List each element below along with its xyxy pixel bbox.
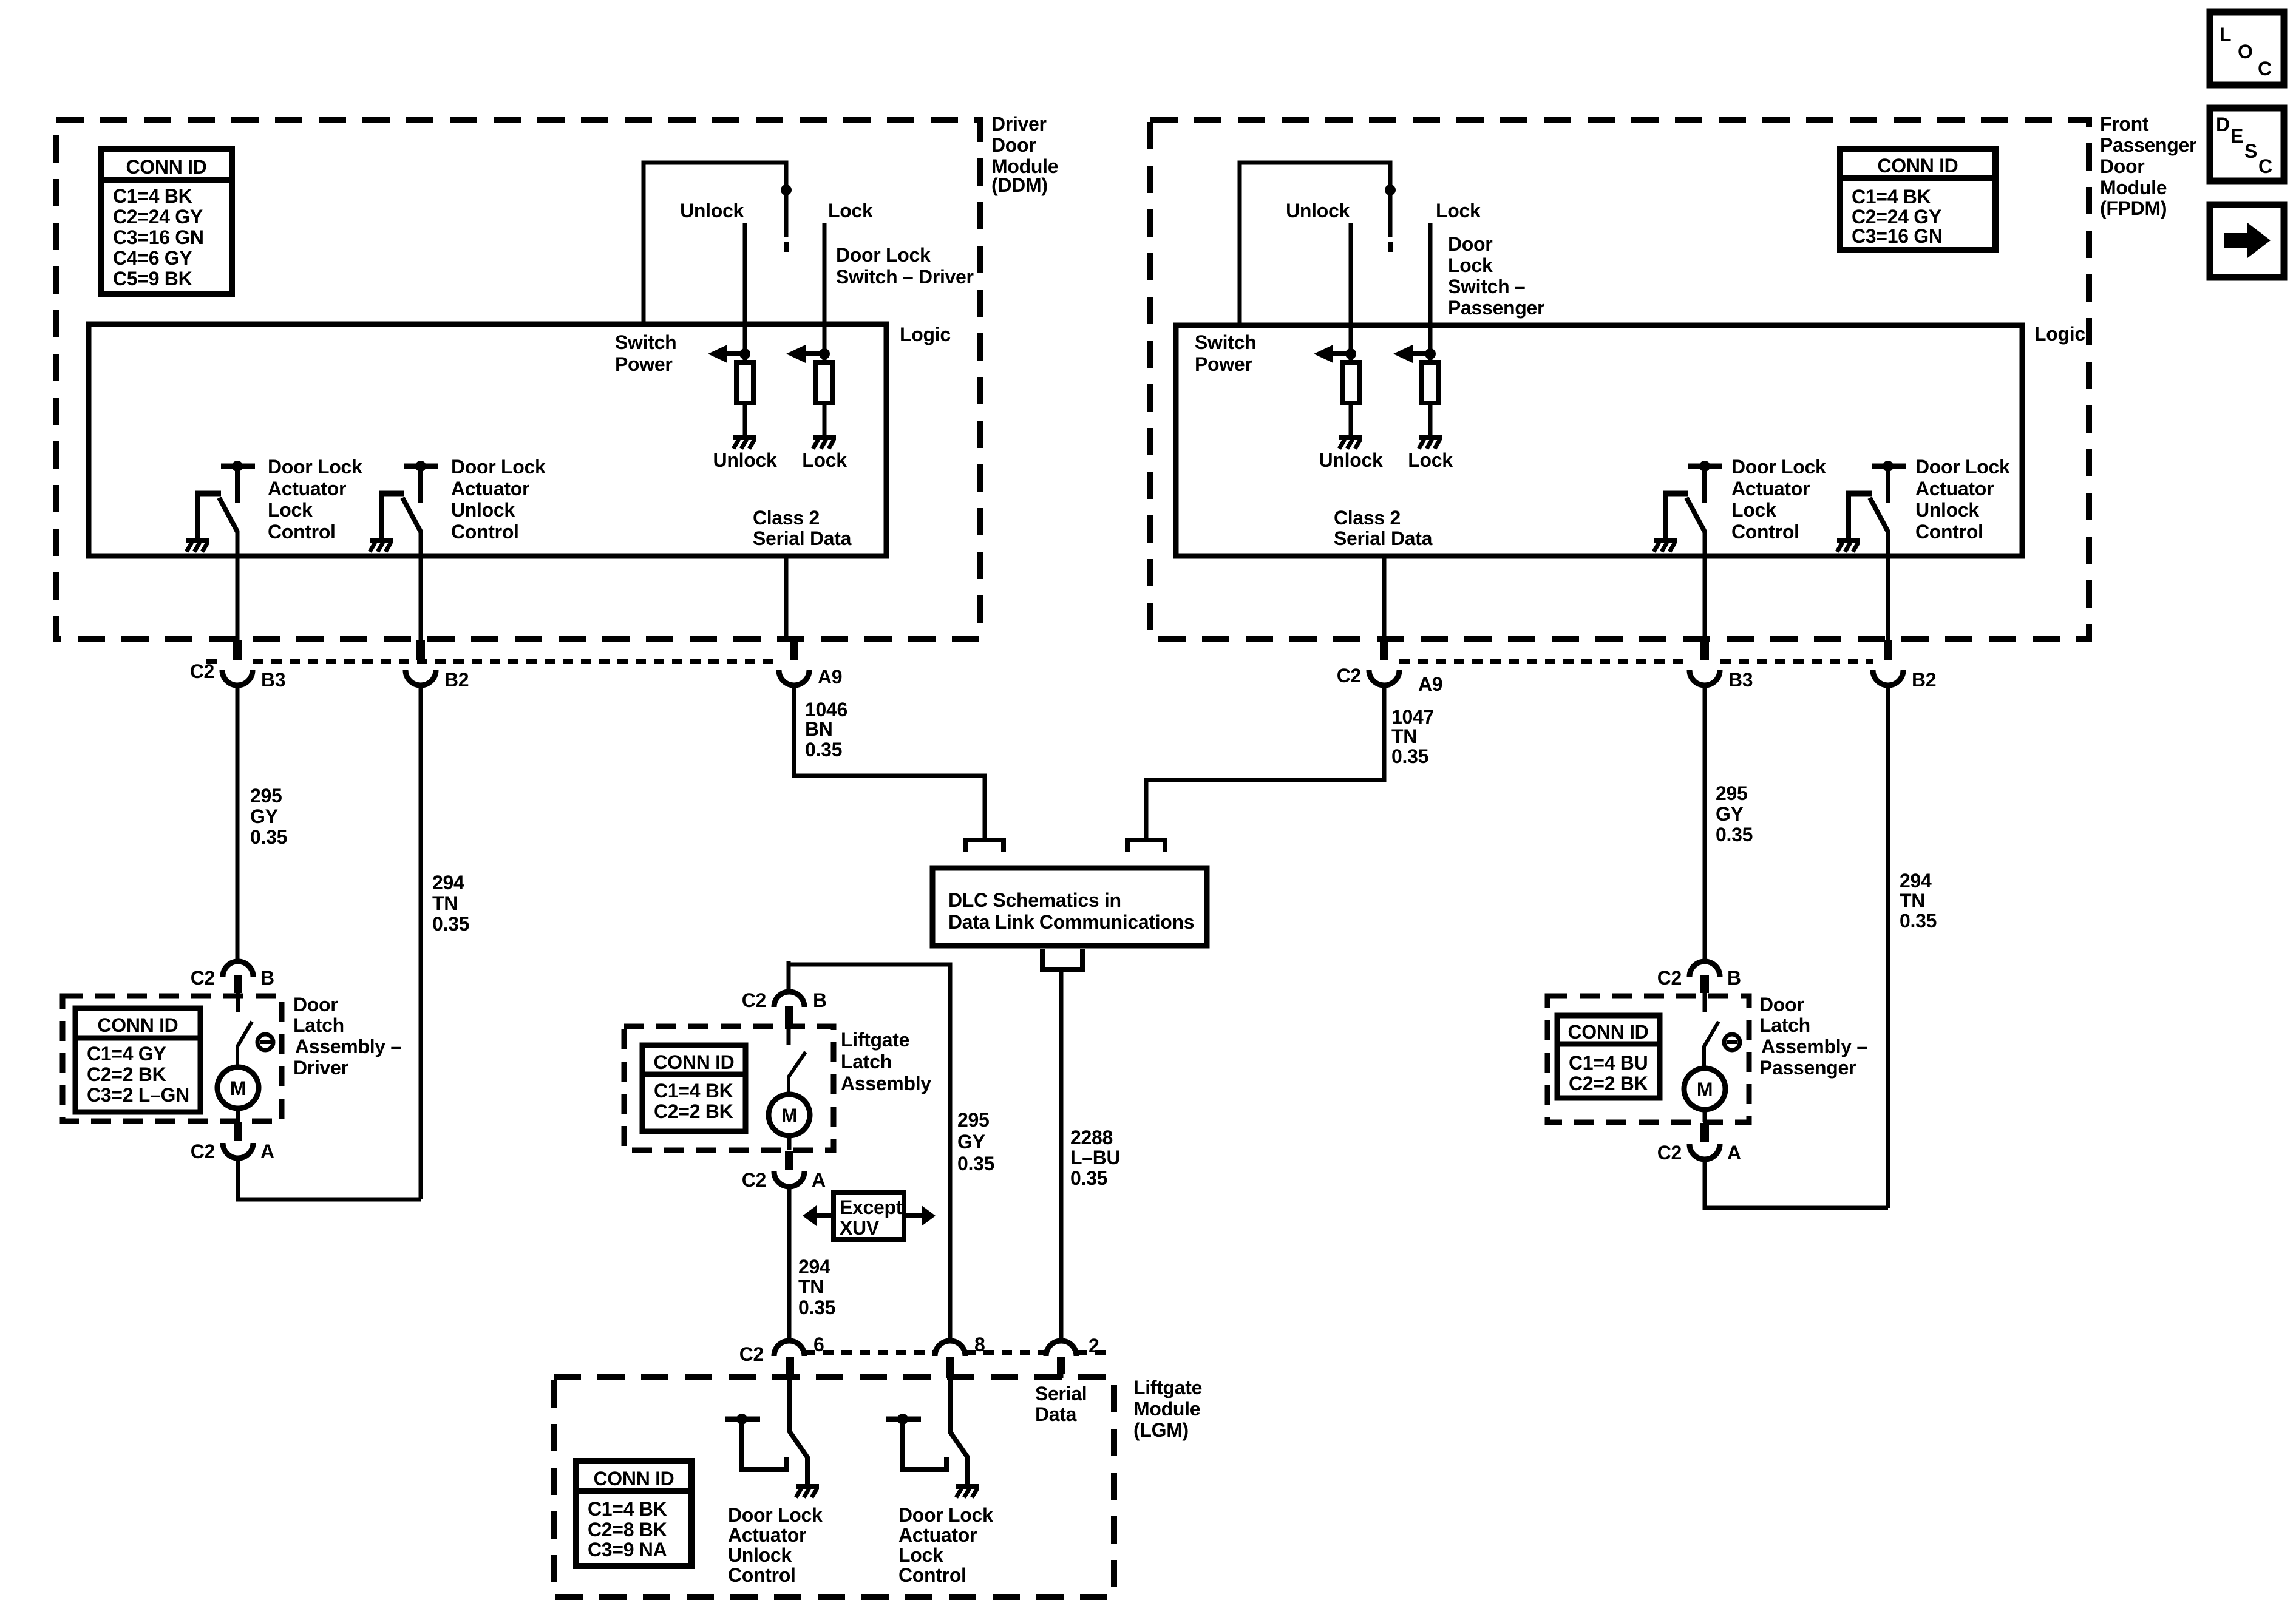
svg-text:Door: Door [1448,233,1492,255]
wire switch power feed DDM [644,163,786,324]
actuator lock control contact LGM [886,1414,946,1470]
svg-text:Serial: Serial [1035,1383,1087,1405]
svg-text:Actuator: Actuator [268,478,346,500]
wire 295 GY B3 to driver latch [236,685,240,963]
svg-text:O: O [2238,41,2253,63]
label Class 2 Serial Data FPDM [1334,507,1433,549]
svg-text:C2=24 GY: C2=24 GY [1852,206,1941,228]
svg-text:C1=4 GY: C1=4 GY [87,1043,166,1065]
svg-text:M: M [230,1077,246,1099]
connector C2 A passenger latch [1690,1110,1720,1159]
wire passenger latch A loop to B2 [1705,1159,1888,1208]
svg-text:Switch –: Switch – [1448,276,1525,297]
svg-text:CONN ID: CONN ID [653,1051,734,1073]
svg-text:Actuator: Actuator [1915,478,1994,500]
svg-text:C2: C2 [1337,665,1361,686]
arrow to switch power from unlock node DDM [708,345,750,363]
label C2 (driver latch A) [191,1141,215,1162]
svg-text:8: 8 [974,1334,985,1355]
svg-text:Lock: Lock [828,200,873,222]
arrow to switch power from lock node DDM [786,345,830,363]
wire class 2 serial data down FPDM [1382,556,1387,641]
label Serial Data LGM [1035,1383,1087,1425]
ground actuator unlock LGM [796,1486,819,1497]
connector ID table passenger latch [1557,1015,1660,1098]
svg-text:0.35: 0.35 [432,913,469,935]
svg-text:GY: GY [250,805,278,827]
connector C2 B liftgate latch [774,964,804,1025]
svg-text:0.35: 0.35 [1070,1167,1107,1189]
switch lever contact dash DDM [784,242,789,252]
svg-text:A9: A9 [818,666,842,688]
svg-text:Lock: Lock [898,1544,943,1566]
svg-text:GY: GY [957,1131,985,1153]
svg-text:CONN ID: CONN ID [1567,1021,1648,1043]
motor M liftgate latch [769,1094,810,1136]
label wire 294 TN 0.35 passenger [1900,870,1937,932]
actuator unlock control switch DDM [379,461,438,540]
label Switch Power DDM [615,331,676,375]
svg-text:Assembly –: Assembly – [1761,1036,1867,1057]
svg-text:Control: Control [1731,521,1799,543]
label Door Lock Actuator Unlock Control DDM [451,456,546,543]
svg-text:Passenger: Passenger [1759,1057,1856,1079]
label Door Lock Actuator Lock Control LGM [898,1504,993,1586]
connector C2 A liftgate latch [774,1136,804,1187]
svg-text:(FPDM): (FPDM) [2100,197,2167,219]
wire 294 TN B2 down driver side [419,685,423,1199]
svg-text:Passenger: Passenger [1448,297,1544,319]
connector pin B3 DDM (C2) [222,640,253,685]
svg-text:Control: Control [268,521,336,543]
svg-text:Unlock: Unlock [680,200,744,222]
svg-text:S: S [2244,140,2257,162]
resistor unlock pull-down FPDM [1342,362,1359,403]
svg-text:C: C [2258,155,2272,177]
svg-text:C1=4 BK: C1=4 BK [1852,186,1931,208]
liftgate latch assembly dashed box [624,1026,834,1150]
connector pin B3 FPDM [1690,640,1720,685]
svg-text:Unlock: Unlock [1319,449,1383,471]
svg-text:Actuator: Actuator [451,478,529,500]
actuator lock control switch DDM [195,461,255,540]
svg-text:C1=4 BU: C1=4 BU [1569,1052,1648,1074]
svg-text:CONN ID: CONN ID [126,156,206,178]
svg-text:2: 2 [1089,1335,1099,1357]
svg-text:Power: Power [615,353,673,375]
wire 1046 BN serial data to DLC [794,685,985,840]
label A (driver latch) [260,1141,274,1162]
svg-text:E: E [2230,125,2243,147]
switch lever driver latch [237,993,252,1067]
svg-text:C2: C2 [739,1343,764,1365]
label wire 295 GY 0.35 driver [250,785,287,848]
label C2 (passenger latch B) [1657,967,1682,989]
svg-text:C1=4 BK: C1=4 BK [588,1498,667,1520]
svg-text:B: B [813,989,827,1011]
wire switch power feed FPDM [1240,163,1390,325]
label 8 [974,1334,985,1355]
label Front Passenger Door Module (FPDM) [2100,113,2196,219]
label Driver Door Module (DDM) [991,113,1058,196]
svg-text:Lock: Lock [802,449,847,471]
svg-text:1046: 1046 [805,699,847,720]
svg-text:Lock: Lock [268,499,313,521]
svg-text:Logic: Logic [900,324,951,345]
connector line dotted C2 DDM [206,659,778,664]
connector pin 8 LGM [935,1341,965,1378]
label B (passenger latch) [1727,967,1741,989]
actuator lock control switch FPDM [1663,461,1722,540]
svg-text:TN: TN [432,892,458,914]
label C2 (LGM pin 6) [739,1343,764,1365]
wire lock switch input FPDM [1428,223,1433,362]
wire lock switch input DDM [823,223,827,362]
svg-text:Latch: Latch [293,1014,344,1036]
label C2 (liftgate latch A) [742,1169,766,1191]
svg-text:Lock: Lock [1731,499,1776,521]
svg-text:C2: C2 [191,967,215,989]
wire actuator lock control output DDM [236,531,240,641]
svg-text:CONN ID: CONN ID [593,1468,674,1490]
svg-text:B: B [260,967,274,989]
svg-text:C1=4 BK: C1=4 BK [113,185,192,207]
svg-text:B: B [1727,967,1741,989]
svg-text:Door Lock: Door Lock [1731,456,1826,478]
svg-text:C2=2 BK: C2=2 BK [1569,1073,1648,1094]
wire resistor to ground unlock FPDM [1349,403,1353,436]
svg-text:294: 294 [798,1256,830,1278]
svg-text:XUV: XUV [840,1217,880,1239]
svg-text:Actuator: Actuator [1731,478,1810,500]
label wire 294 TN 0.35 liftgate [798,1256,835,1318]
svg-text:(DDM): (DDM) [991,174,1048,196]
wire 294 TN B2 down passenger side [1886,685,1890,1208]
connector ID table driver latch [75,1008,200,1112]
svg-text:Switch – Driver: Switch – Driver [836,266,974,288]
svg-text:C: C [2258,58,2272,80]
wire resistor to ground lock DDM [823,403,827,436]
svg-text:M: M [1697,1079,1713,1100]
svg-text:C2=2 BK: C2=2 BK [87,1063,166,1085]
label wire 1046 BN 0.35 [805,699,847,761]
label C2 DDM [190,660,214,682]
label C2 (passenger latch A) [1657,1142,1682,1164]
arrow to switch power from unlock node FPDM [1314,345,1356,363]
svg-text:C5=9 BK: C5=9 BK [113,268,192,290]
svg-text:Door Lock: Door Lock [1915,456,2010,478]
svg-text:TN: TN [1900,890,1925,912]
label Door Lock Actuator Unlock Control LGM [728,1504,823,1586]
connector line dotted liftgate row [805,1350,1111,1355]
svg-text:A: A [260,1141,274,1162]
passenger latch: connector C2 B [1690,961,1720,993]
svg-text:0.35: 0.35 [798,1297,835,1318]
svg-text:0.35: 0.35 [957,1153,994,1175]
label Door Latch Assembly - Driver [293,994,401,1079]
label Door Lock Actuator Lock Control DDM [268,456,362,543]
module box LGM (Liftgate Module) dashed outline [554,1377,1114,1597]
label A9 [818,666,842,688]
svg-text:Unlock: Unlock [1286,200,1350,222]
svg-text:BN: BN [805,718,833,740]
svg-text:Unlock: Unlock [451,499,515,521]
label Liftgate Latch Assembly [841,1029,931,1094]
connector pin A9 FPDM (C2) [1369,640,1399,685]
label B3 [261,669,285,691]
label wire 1047 TN 0.35 [1391,706,1434,767]
driver latch: connector C2 B [223,961,253,993]
label Logic DDM [900,324,951,345]
wire 2288 serial data DLC to LGM [1059,969,1064,1342]
svg-text:Assembly –: Assembly – [295,1036,401,1057]
wire resistor to ground unlock DDM [743,403,747,436]
driver latch assembly dashed box [63,996,282,1121]
ground unlock resistor FPDM [1339,438,1362,449]
svg-text:Serial Data: Serial Data [753,527,852,549]
label Door Lock Switch - Passenger [1448,233,1544,319]
svg-text:L: L [2220,24,2231,46]
svg-text:294: 294 [1900,870,1932,892]
svg-text:Except: Except [840,1196,903,1218]
connector ID table FPDM [1840,149,1995,250]
wire serial data stub into LGM [1059,1374,1064,1378]
label Lock (below ground) DDM [802,449,847,471]
connector pin 2 LGM [1046,1341,1076,1374]
label wire 295 GY 0.35 liftgate [957,1109,994,1175]
label wire 294 TN 0.35 driver [432,872,469,935]
svg-text:L–BU: L–BU [1070,1147,1120,1168]
svg-text:C1=4 BK: C1=4 BK [654,1080,733,1102]
label Door Lock Actuator Lock Control FPDM [1731,456,1826,543]
motor M passenger latch [1684,1068,1725,1110]
svg-text:294: 294 [432,872,464,893]
svg-text:Liftgate: Liftgate [1133,1377,1202,1398]
switch lever contact dash FPDM [1388,242,1393,252]
switch lever passenger latch [1704,993,1719,1067]
label 2 [1089,1335,1099,1357]
svg-text:1047: 1047 [1391,706,1434,728]
ground actuator unlock control FPDM [1837,541,1860,552]
wire actuator lock control output FPDM [1703,531,1707,641]
wire 1047 TN serial data to DLC [1146,685,1384,840]
label Liftgate Module (LGM) [1133,1377,1202,1441]
wire driver latch A loop to B2 [238,1158,421,1199]
label Door Latch Assembly - Passenger [1759,994,1867,1079]
label B3 FPDM [1728,669,1753,691]
wire actuator unlock control output FPDM [1886,531,1890,641]
svg-text:B3: B3 [1728,669,1753,691]
actuator unlock lever LGM [790,1378,807,1485]
connector pin 6 LGM (C2) [774,1341,804,1378]
svg-text:B2: B2 [444,669,469,691]
svg-text:Module: Module [1133,1398,1200,1420]
svg-text:Control: Control [451,521,519,543]
connector pin B2 FPDM [1873,640,1903,685]
connector pin A9 DDM [779,640,809,685]
label Lock (switch) FPDM [1436,200,1481,222]
logic box DDM [89,324,886,556]
svg-text:Data: Data [1035,1403,1077,1425]
svg-text:Lock: Lock [1408,449,1453,471]
node switch common dot DDM [781,185,792,195]
svg-text:Switch: Switch [1195,331,1256,353]
svg-text:Driver: Driver [293,1057,348,1079]
label Unlock (below ground) FPDM [1319,449,1383,471]
ground unlock resistor DDM [733,438,756,449]
svg-text:2288: 2288 [1070,1127,1113,1148]
svg-text:Serial Data: Serial Data [1334,527,1433,549]
svg-text:6: 6 [813,1334,824,1355]
svg-text:C3=16 GN: C3=16 GN [113,226,204,248]
svg-text:0.35: 0.35 [1900,910,1937,932]
svg-text:Unlock: Unlock [1915,499,1979,521]
label Door Lock Switch - Driver [836,244,974,288]
svg-text:Actuator: Actuator [728,1524,806,1546]
svg-text:295: 295 [250,785,282,807]
resistor lock pull-down DDM [816,362,833,403]
ground actuator lock control DDM [186,541,209,552]
svg-text:Latch: Latch [1759,1014,1810,1036]
svg-text:Liftgate: Liftgate [841,1029,909,1051]
actuator unlock control contact LGM [725,1414,786,1470]
icon box LOC [2210,12,2284,85]
arrow to switch power from lock node FPDM [1393,345,1436,363]
svg-text:Unlock: Unlock [713,449,777,471]
svg-text:295: 295 [1716,782,1748,804]
connector ID table LGM [576,1461,691,1566]
DLC bus bracket left [966,840,1004,852]
box DLC Schematics [932,868,1207,946]
connector C2 A driver latch [223,1108,253,1158]
svg-text:C4=6 GY: C4=6 GY [113,247,192,269]
svg-text:B2: B2 [1912,669,1936,691]
ground actuator lock control FPDM [1654,541,1677,552]
label Unlock (switch) FPDM [1286,200,1350,222]
svg-text:Class 2: Class 2 [753,507,820,529]
svg-text:0.35: 0.35 [1716,824,1753,846]
svg-text:C2: C2 [742,989,766,1011]
passenger latch assembly dashed box [1547,996,1749,1122]
resistor lock pull-down FPDM [1422,362,1439,403]
connector pin B2 DDM [406,640,436,685]
svg-text:DLC Schematics in: DLC Schematics in [948,889,1121,911]
svg-text:Driver: Driver [991,113,1047,135]
label B (liftgate latch) [813,989,827,1011]
svg-text:Control: Control [898,1564,966,1586]
wire actuator unlock control output DDM [419,531,423,641]
svg-text:D: D [2216,114,2230,135]
icon box arrow [2210,205,2284,277]
svg-text:Actuator: Actuator [898,1524,977,1546]
svg-text:0.35: 0.35 [250,826,287,848]
svg-text:Lock: Lock [1448,254,1493,276]
wire class 2 serial data down DDM [784,556,789,641]
Except XUV left arrow [803,1205,834,1226]
svg-text:Door Lock: Door Lock [268,456,362,478]
svg-text:Passenger: Passenger [2100,134,2196,156]
icon box DESC [2210,108,2284,181]
module box FPDM (Front Passenger Door Module) dashed outline [1150,120,2089,639]
wire unlock switch input FPDM [1349,223,1353,362]
svg-text:C2: C2 [191,1141,215,1162]
svg-text:(LGM): (LGM) [1133,1419,1189,1441]
ground lock resistor DDM [813,438,836,449]
svg-text:Door Lock: Door Lock [451,456,546,478]
svg-text:M: M [781,1105,797,1127]
actuator unlock control switch FPDM [1846,461,1906,540]
svg-text:Door Lock: Door Lock [898,1504,993,1526]
svg-text:Door: Door [2100,155,2144,177]
svg-text:GY: GY [1716,803,1744,825]
wire liftgate latch top jog [789,961,950,1342]
label Switch Power FPDM [1195,331,1256,375]
svg-text:A9: A9 [1418,673,1442,695]
motor M driver latch [217,1067,259,1108]
svg-text:TN: TN [1391,725,1417,747]
svg-text:C2=2 BK: C2=2 BK [654,1100,733,1122]
ground actuator lock LGM [956,1486,979,1497]
ground actuator unlock control DDM [370,541,393,552]
label A (passenger latch) [1727,1142,1741,1164]
svg-text:Data Link Communications: Data Link Communications [948,911,1194,933]
label wire 2288 L-BU 0.35 [1070,1127,1120,1189]
svg-text:Front: Front [2100,113,2149,135]
svg-text:C3=2 L–GN: C3=2 L–GN [87,1084,189,1106]
svg-text:0.35: 0.35 [1391,745,1428,767]
label A (liftgate latch) [812,1169,826,1191]
label 6 [813,1334,824,1355]
svg-text:C3=16 GN: C3=16 GN [1852,225,1943,247]
connector line dotted C2 FPDM [1399,659,1873,664]
label Unlock (below ground) DDM [713,449,777,471]
svg-text:Door Lock: Door Lock [728,1504,823,1526]
svg-text:Door: Door [293,994,338,1015]
svg-text:C2=8 BK: C2=8 BK [588,1519,667,1541]
wire liftgate latch A to connector 6 [787,1187,792,1342]
label B2 FPDM [1912,669,1936,691]
label Class 2 Serial Data DDM [753,507,852,549]
svg-text:CONN ID: CONN ID [1877,155,1958,177]
svg-text:Unlock: Unlock [728,1544,792,1566]
label C2 (liftgate latch B) [742,989,766,1011]
svg-text:295: 295 [957,1109,990,1131]
logic box FPDM [1176,325,2022,556]
DLC bottom bracket [1042,949,1082,969]
svg-text:C2=24 GY: C2=24 GY [113,206,203,228]
label Unlock (switch) DDM [680,200,744,222]
module box DDM (Driver Door Module) dashed outline [56,120,980,639]
contact circle passenger latch [1724,1034,1740,1050]
DLC bus bracket right [1127,840,1165,852]
label C2 (driver latch B) [191,967,215,989]
svg-text:C2: C2 [1657,967,1682,989]
svg-text:Logic: Logic [2034,323,2085,345]
svg-text:Module: Module [2100,177,2167,198]
Except XUV flag box [834,1193,904,1239]
switch lever liftgate latch [789,1025,806,1094]
svg-text:Door Lock: Door Lock [836,244,931,266]
label B2 [444,669,469,691]
Except XUV right arrow [904,1205,936,1226]
label Door Lock Actuator Unlock Control FPDM [1915,456,2010,543]
connector ID table liftgate latch [642,1045,746,1131]
svg-text:Door: Door [991,134,1036,156]
svg-text:C2: C2 [1657,1142,1682,1164]
label Lock (below ground) FPDM [1408,449,1453,471]
svg-text:Control: Control [728,1564,796,1586]
svg-text:Power: Power [1195,353,1252,375]
